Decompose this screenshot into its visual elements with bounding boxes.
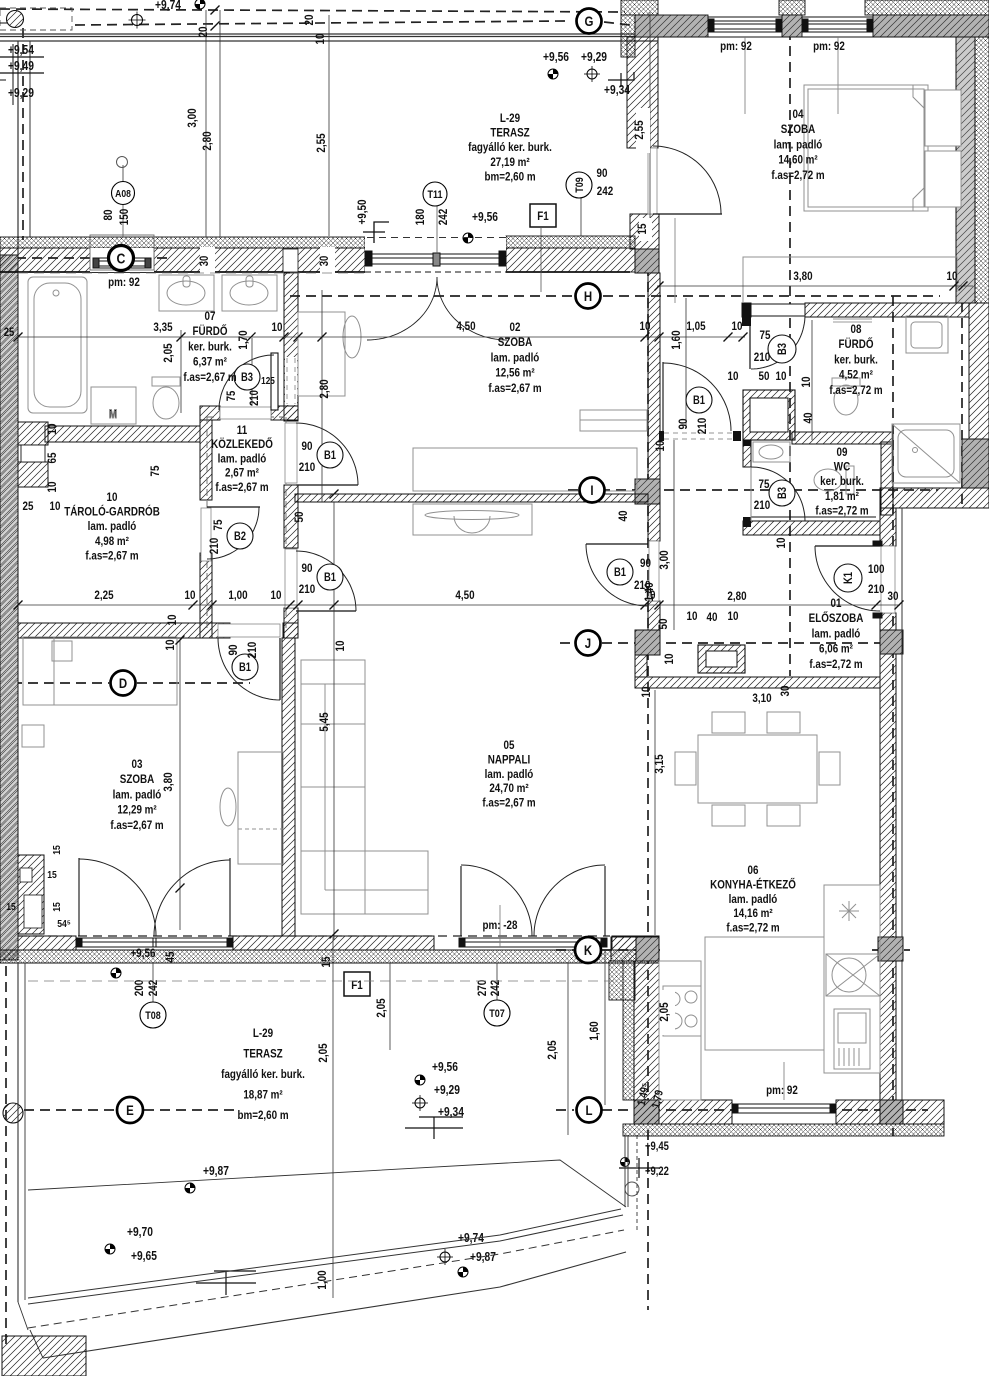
svg-text:180: 180 <box>414 209 427 225</box>
wall: 03/NAPPALI vertical wall <box>282 638 295 936</box>
svg-text:FÜRDŐ: FÜRDŐ <box>193 324 228 338</box>
svg-text:30: 30 <box>318 256 331 267</box>
toilet 09 <box>846 466 854 494</box>
svg-text:10: 10 <box>800 377 813 388</box>
svg-text:1,05: 1,05 <box>686 320 705 333</box>
svg-text:210: 210 <box>696 418 709 434</box>
bed 03 <box>23 637 177 705</box>
svg-text:10: 10 <box>732 320 743 333</box>
svg-text:lam. padló: lam. padló <box>729 893 778 906</box>
svg-text:15: 15 <box>51 845 63 855</box>
door T09 (terrace to 04) <box>648 146 722 214</box>
svg-text:f.as=2,72 m: f.as=2,72 m <box>726 922 780 935</box>
svg-text:4,98 m²: 4,98 m² <box>95 535 129 548</box>
svg-text:1,70: 1,70 <box>237 330 250 349</box>
svg-text:pm: 92: pm: 92 <box>720 40 752 53</box>
wall: 02/07 vertical wall <box>284 273 298 406</box>
svg-text:+9,54: +9,54 <box>8 44 34 57</box>
wall: WC left wall <box>743 440 751 467</box>
door B3 (08 furdo) <box>750 304 805 369</box>
svg-text:D: D <box>119 675 127 691</box>
tv cabinet nappali <box>413 504 532 535</box>
chimney block <box>698 645 745 673</box>
window pm:92 kitchen <box>732 1062 836 1113</box>
window label T09 <box>566 172 592 198</box>
room label 01 eloszoba <box>809 597 864 671</box>
svg-text:lam. padló: lam. padló <box>113 789 162 802</box>
svg-text:15: 15 <box>320 957 333 968</box>
svg-text:L: L <box>585 1102 592 1118</box>
door B2 (10 to kozlekedo) <box>201 507 260 561</box>
radiator 02 <box>580 410 647 431</box>
door B1 passage (y431) <box>659 362 741 441</box>
svg-text:210: 210 <box>299 461 315 474</box>
pillar K insulation wrap <box>609 961 635 1000</box>
svg-text:+9,56: +9,56 <box>432 1061 458 1074</box>
door label B1 02 <box>299 440 343 474</box>
door label B2 10 <box>208 520 253 555</box>
wall: bottom band NAPPALI/03 terrace <box>0 936 659 963</box>
svg-text:10: 10 <box>640 687 653 698</box>
svg-text:10: 10 <box>185 589 196 602</box>
step 03 left <box>18 855 44 934</box>
pillar L right <box>880 1100 903 1124</box>
svg-text:30: 30 <box>779 686 792 697</box>
svg-text:SZOBA: SZOBA <box>120 773 154 786</box>
svg-text:6,06 m²: 6,06 m² <box>819 643 853 656</box>
svg-text:10: 10 <box>640 320 651 333</box>
svg-text:2,80: 2,80 <box>201 131 214 150</box>
svg-text:B1: B1 <box>239 661 251 674</box>
svg-text:+9,29: +9,29 <box>8 87 34 100</box>
wall: terrace/room04 vertical wall <box>627 37 658 148</box>
window T11 (terrace/02) <box>365 236 506 272</box>
dashed line top terrace <box>18 272 365 274</box>
washbasin 07 b <box>222 275 277 311</box>
wall: 10/03 wall <box>18 623 230 638</box>
svg-text:+9,87: +9,87 <box>203 1165 229 1178</box>
svg-text:04: 04 <box>793 108 805 121</box>
svg-text:pm: 92: pm: 92 <box>108 276 140 289</box>
svg-text:03: 03 <box>132 758 143 771</box>
svg-text:90: 90 <box>677 419 690 430</box>
svg-text:210: 210 <box>299 583 315 596</box>
svg-text:f.as=2,67 m: f.as=2,67 m <box>488 382 542 395</box>
svg-text:90: 90 <box>640 557 651 570</box>
axis circle L <box>577 1098 602 1123</box>
room label 11 kozlekedo <box>211 424 273 494</box>
terrace bottom slant edges <box>18 963 626 1358</box>
svg-text:4,50: 4,50 <box>455 589 474 602</box>
svg-text:bm=2,60 m: bm=2,60 m <box>237 1109 288 1122</box>
door label B3 09 <box>754 478 795 512</box>
svg-text:L-29: L-29 <box>500 112 520 125</box>
svg-text:10: 10 <box>947 270 958 283</box>
svg-text:f.as=2,67 m: f.as=2,67 m <box>110 819 164 832</box>
svg-text:2,80: 2,80 <box>318 379 331 398</box>
desk+chair 02 <box>298 312 345 396</box>
dashed canopy line bottom terrace <box>28 980 620 982</box>
svg-text:242: 242 <box>597 185 613 198</box>
svg-text:210: 210 <box>754 351 770 364</box>
svg-text:11: 11 <box>237 424 247 437</box>
svg-text:10: 10 <box>334 641 347 652</box>
pillar J right <box>880 630 903 654</box>
door label B3 07 <box>225 364 275 406</box>
svg-text:lam. padló: lam. padló <box>774 139 823 152</box>
svg-text:4,52 m²: 4,52 m² <box>839 369 873 382</box>
svg-text:T08: T08 <box>145 1010 161 1022</box>
svg-text:40: 40 <box>707 611 718 624</box>
svg-text:f.as=2,72 m: f.as=2,72 m <box>815 505 869 518</box>
svg-text:T07: T07 <box>489 1008 505 1020</box>
wall: ELOSZOBA bottom / kitchen top <box>635 677 880 688</box>
svg-text:50: 50 <box>657 619 670 630</box>
pillar K left <box>611 937 659 961</box>
svg-text:07: 07 <box>205 310 216 323</box>
pillar shower corner <box>962 439 989 488</box>
room label 05 nappali <box>482 739 536 810</box>
wall thickness labels 30 <box>198 247 215 273</box>
corner hatched column <box>7 11 24 28</box>
svg-text:90: 90 <box>227 645 240 656</box>
svg-text:2,25: 2,25 <box>94 589 113 602</box>
svg-text:M: M <box>109 408 117 421</box>
axis circle J <box>576 631 601 656</box>
svg-text:40: 40 <box>802 413 815 424</box>
kitchen corner projection lines <box>625 1135 637 1232</box>
room label 03 szoba <box>110 758 164 832</box>
svg-text:B1: B1 <box>324 449 336 462</box>
door B3 (09 wc) <box>751 467 805 521</box>
niche left <box>18 422 48 445</box>
svg-text:10: 10 <box>654 441 667 452</box>
svg-text:40: 40 <box>617 511 630 522</box>
svg-text:B2: B2 <box>234 530 246 543</box>
svg-text:3,80: 3,80 <box>793 270 812 283</box>
washbasin 07 a <box>159 275 214 311</box>
survey marker top <box>155 0 205 12</box>
svg-text:50: 50 <box>759 370 770 383</box>
dining table 06 <box>698 735 817 803</box>
svg-text:L-29: L-29 <box>253 1027 273 1040</box>
svg-text:14,16 m²: 14,16 m² <box>733 907 773 920</box>
svg-text:f.as=2,67 m: f.as=2,67 m <box>482 797 536 810</box>
wall: right wall ELOSZOBA / kitchen <box>880 508 896 546</box>
svg-text:ELŐSZOBA: ELŐSZOBA <box>809 611 864 625</box>
wall: WC bottom wall <box>743 521 880 535</box>
svg-text:10: 10 <box>164 640 177 651</box>
svg-text:+9,29: +9,29 <box>434 1084 460 1097</box>
sink right <box>826 954 880 996</box>
svg-text:3,10: 3,10 <box>752 692 771 705</box>
washbasin 09 <box>753 442 790 462</box>
dashed slab edge over band <box>18 935 610 937</box>
svg-text:fagyálló ker. burk.: fagyálló ker. burk. <box>221 1068 305 1081</box>
door T07 (nappali to terrace, double) <box>461 865 605 936</box>
axis circle C <box>109 246 134 271</box>
svg-text:lam. padló: lam. padló <box>491 352 540 365</box>
threshold T08 <box>76 938 233 947</box>
svg-text:4,50: 4,50 <box>456 320 475 333</box>
svg-text:10: 10 <box>775 538 788 549</box>
svg-text:f.as=2,67 m: f.as=2,67 m <box>85 550 139 563</box>
svg-text:30: 30 <box>198 256 211 267</box>
wall: 07/10 wall <box>45 426 200 442</box>
label A08 <box>112 182 135 205</box>
svg-text:+9,70: +9,70 <box>127 1226 153 1239</box>
window pm:92 room04 east <box>802 17 873 32</box>
wall: left exterior wall <box>0 255 18 960</box>
svg-text:12,29 m²: 12,29 m² <box>117 804 157 817</box>
svg-text:10: 10 <box>46 482 59 493</box>
svg-text:+9,56: +9,56 <box>472 211 498 224</box>
svg-text:pm: -28: pm: -28 <box>483 919 518 932</box>
toilet 08 <box>832 378 860 386</box>
wall: 10/11 vertical wall <box>200 420 212 500</box>
svg-text:06: 06 <box>748 864 759 877</box>
svg-text:E: E <box>126 1102 134 1118</box>
wall: WC right / shower divider <box>881 442 893 515</box>
svg-text:+9,34: +9,34 <box>604 84 630 97</box>
svg-text:pm: 92: pm: 92 <box>813 40 845 53</box>
svg-text:2,80: 2,80 <box>727 590 746 603</box>
svg-text:SZOBA: SZOBA <box>781 123 815 136</box>
survey circle top-left <box>129 12 146 29</box>
kozlekedo dashed projections <box>207 417 286 628</box>
pillar I junction <box>635 479 660 504</box>
axis circle H <box>576 284 601 309</box>
svg-text:+9,56: +9,56 <box>543 51 569 64</box>
wall: 08 right exterior wall <box>969 303 989 439</box>
window/door C (A08) opening <box>90 248 154 272</box>
bottom-left corner hatch <box>2 1336 86 1376</box>
svg-text:15: 15 <box>6 901 16 913</box>
room label 10 tarolo <box>64 491 160 563</box>
svg-text:ker. burk.: ker. burk. <box>188 341 232 354</box>
svg-text:lam. padló: lam. padló <box>812 628 861 641</box>
svg-text:B3: B3 <box>776 343 789 355</box>
svg-text:270: 270 <box>476 980 489 996</box>
svg-text:210: 210 <box>868 583 884 596</box>
svg-text:ker. burk.: ker. burk. <box>820 475 864 488</box>
pillar at C/04 junction <box>635 249 659 273</box>
level cluster top right <box>543 51 634 97</box>
wall: 02 szoba right wall / passage wall <box>648 273 660 479</box>
svg-text:KONYHA-ÉTKEZŐ: KONYHA-ÉTKEZŐ <box>710 877 796 891</box>
svg-text:2,05: 2,05 <box>162 343 175 362</box>
svg-text:01: 01 <box>831 597 842 610</box>
window label T07 <box>484 1000 510 1026</box>
label F1 top <box>530 204 556 227</box>
svg-text:2,55: 2,55 <box>315 133 328 152</box>
dresser 02 <box>413 448 637 491</box>
pillar K right <box>878 937 903 961</box>
svg-text:2,05: 2,05 <box>375 998 388 1017</box>
svg-text:20: 20 <box>197 27 210 38</box>
svg-text:09: 09 <box>837 446 848 459</box>
svg-text:3,00: 3,00 <box>186 108 199 127</box>
svg-text:1,00: 1,00 <box>316 1270 329 1289</box>
kitchen island <box>705 937 824 1050</box>
svg-text:B1: B1 <box>614 566 626 579</box>
window pm:92 room04 west <box>708 17 873 114</box>
svg-text:27,19 m²: 27,19 m² <box>490 156 530 169</box>
axis circle E <box>117 1097 143 1123</box>
svg-text:1,81 m²: 1,81 m² <box>825 490 859 503</box>
svg-text:lam. padló: lam. padló <box>218 453 267 466</box>
door T08 (03 to terrace, double) <box>79 858 230 936</box>
wall: room04 right exterior wall <box>956 37 975 303</box>
room label 08 furdo <box>829 323 883 397</box>
svg-text:05: 05 <box>504 739 515 752</box>
door label B1 nappali <box>299 562 343 596</box>
level +9,50 <box>356 200 389 243</box>
door B1 (nappali right wall) <box>586 541 659 606</box>
room label 09 wc <box>815 446 869 518</box>
svg-text:75: 75 <box>212 520 225 531</box>
svg-text:B3: B3 <box>241 371 253 384</box>
svg-text:K1: K1 <box>842 572 855 584</box>
wall: C-band main wall <box>0 248 91 272</box>
washing machine M <box>91 387 136 424</box>
washbasin 08 <box>906 316 948 353</box>
svg-text:J: J <box>585 635 591 651</box>
svg-text:f.as=2,72 m: f.as=2,72 m <box>809 658 863 671</box>
nightstand 03 <box>22 725 44 747</box>
svg-text:2,05: 2,05 <box>546 1040 559 1059</box>
pillar J junction <box>635 630 660 655</box>
svg-text:+9,50: +9,50 <box>356 200 369 225</box>
svg-text:f.as=2,72 m: f.as=2,72 m <box>829 384 883 397</box>
svg-text:54⁵: 54⁵ <box>57 918 71 930</box>
svg-text:75: 75 <box>760 329 771 342</box>
svg-text:lam. padló: lam. padló <box>485 768 534 781</box>
svg-text:15: 15 <box>47 869 57 881</box>
svg-text:210: 210 <box>634 579 650 592</box>
svg-text:f.as=2,72 m: f.as=2,72 m <box>771 169 825 182</box>
survey circle A08 <box>117 157 128 168</box>
svg-text:3,80: 3,80 <box>162 772 175 791</box>
svg-text:10: 10 <box>46 424 59 435</box>
svg-text:08: 08 <box>851 323 862 336</box>
cooktop symbol <box>839 901 859 921</box>
door label B1 right wall <box>607 557 651 592</box>
wall: kitchen left exterior wall <box>623 961 634 1100</box>
svg-text:10: 10 <box>107 491 118 504</box>
svg-text:A08: A08 <box>115 188 131 200</box>
svg-text:KÖZLEKEDŐ: KÖZLEKEDŐ <box>211 437 273 451</box>
svg-text:B1: B1 <box>324 571 336 584</box>
svg-text:F1: F1 <box>537 210 548 223</box>
svg-text:T09: T09 <box>574 177 586 193</box>
door B1 (kozlekedo to 03) <box>218 624 280 700</box>
wall: right side below shower <box>880 488 989 508</box>
svg-text:3,00: 3,00 <box>658 550 671 569</box>
door B1 (kozlekedo to nappali) <box>285 549 356 611</box>
room label 04 szoba <box>771 108 825 182</box>
svg-text:25: 25 <box>23 500 34 513</box>
svg-text:10: 10 <box>663 654 676 665</box>
window label T08 <box>140 1002 166 1028</box>
bed 04 <box>804 85 928 211</box>
svg-text:10: 10 <box>776 370 787 383</box>
svg-text:10: 10 <box>272 321 283 334</box>
wardrobe 04 / projection lines <box>674 218 676 303</box>
wall: 07 bottom wall / B3 door wall <box>200 406 220 420</box>
wall: 08 furdo top wall <box>742 303 751 317</box>
room label 07 furdo <box>183 310 237 384</box>
svg-text:75: 75 <box>759 478 770 491</box>
door K1 (entrance) <box>815 541 895 618</box>
svg-text:90: 90 <box>302 562 313 575</box>
svg-text:C: C <box>117 250 126 266</box>
svg-text:bm=2,60 m: bm=2,60 m <box>484 171 535 184</box>
door label K1 <box>834 563 884 596</box>
svg-text:02: 02 <box>510 321 521 334</box>
svg-text:pm: 92: pm: 92 <box>766 1084 798 1097</box>
svg-text:90: 90 <box>597 167 608 180</box>
svg-text:10: 10 <box>728 370 739 383</box>
svg-text:18,87 m²: 18,87 m² <box>243 1089 283 1102</box>
room label terasz bottom <box>221 1027 305 1122</box>
fridge <box>834 1009 870 1069</box>
sofa nappali <box>301 660 365 914</box>
axis circle D <box>111 671 136 696</box>
door label B3 08 <box>768 335 796 363</box>
curtain arcs T11 <box>367 277 437 340</box>
axis circle G <box>577 9 602 34</box>
svg-text:210: 210 <box>754 499 770 512</box>
svg-text:+9,56: +9,56 <box>131 947 156 960</box>
svg-text:90: 90 <box>302 440 313 453</box>
svg-text:1,00: 1,00 <box>228 589 247 602</box>
svg-text:NAPPALI: NAPPALI <box>488 754 530 767</box>
svg-text:fagyálló ker. burk.: fagyálló ker. burk. <box>468 141 552 154</box>
svg-text:lam. padló: lam. padló <box>88 520 137 533</box>
svg-text:+9,87: +9,87 <box>470 1251 496 1264</box>
svg-text:I: I <box>590 482 593 498</box>
svg-text:24,70 m²: 24,70 m² <box>489 782 529 795</box>
kitchen counter left / hob <box>659 961 701 1100</box>
svg-text:f.as=2,67 m: f.as=2,67 m <box>215 481 269 494</box>
markers bottom terrace <box>105 968 669 1295</box>
svg-text:6,37 m²: 6,37 m² <box>193 356 227 369</box>
svg-text:242: 242 <box>489 980 502 996</box>
svg-text:K: K <box>584 942 593 958</box>
svg-text:80: 80 <box>102 210 115 221</box>
svg-text:242: 242 <box>437 209 450 225</box>
room label 06 konyha <box>710 864 796 935</box>
svg-text:10: 10 <box>271 589 282 602</box>
kitchen counter right <box>824 885 880 1073</box>
wall: 08/09 wall <box>792 432 893 444</box>
room label 02 szoba <box>488 321 542 395</box>
svg-text:+9,65: +9,65 <box>131 1250 157 1263</box>
svg-text:2,55: 2,55 <box>633 120 646 139</box>
svg-text:45: 45 <box>164 952 177 963</box>
svg-text:125: 125 <box>261 375 275 386</box>
svg-text:10: 10 <box>728 610 739 623</box>
svg-text:30: 30 <box>888 590 899 603</box>
wall: kitchen bottom wall <box>634 1100 732 1124</box>
svg-text:1,60: 1,60 <box>670 330 683 349</box>
svg-text:TÁROLÓ-GARDRÓB: TÁROLÓ-GARDRÓB <box>64 505 160 519</box>
svg-text:+9,49: +9,49 <box>8 60 34 73</box>
svg-text:+9,74: +9,74 <box>155 0 181 12</box>
svg-text:20: 20 <box>303 15 316 26</box>
toilet 07 <box>152 377 180 386</box>
